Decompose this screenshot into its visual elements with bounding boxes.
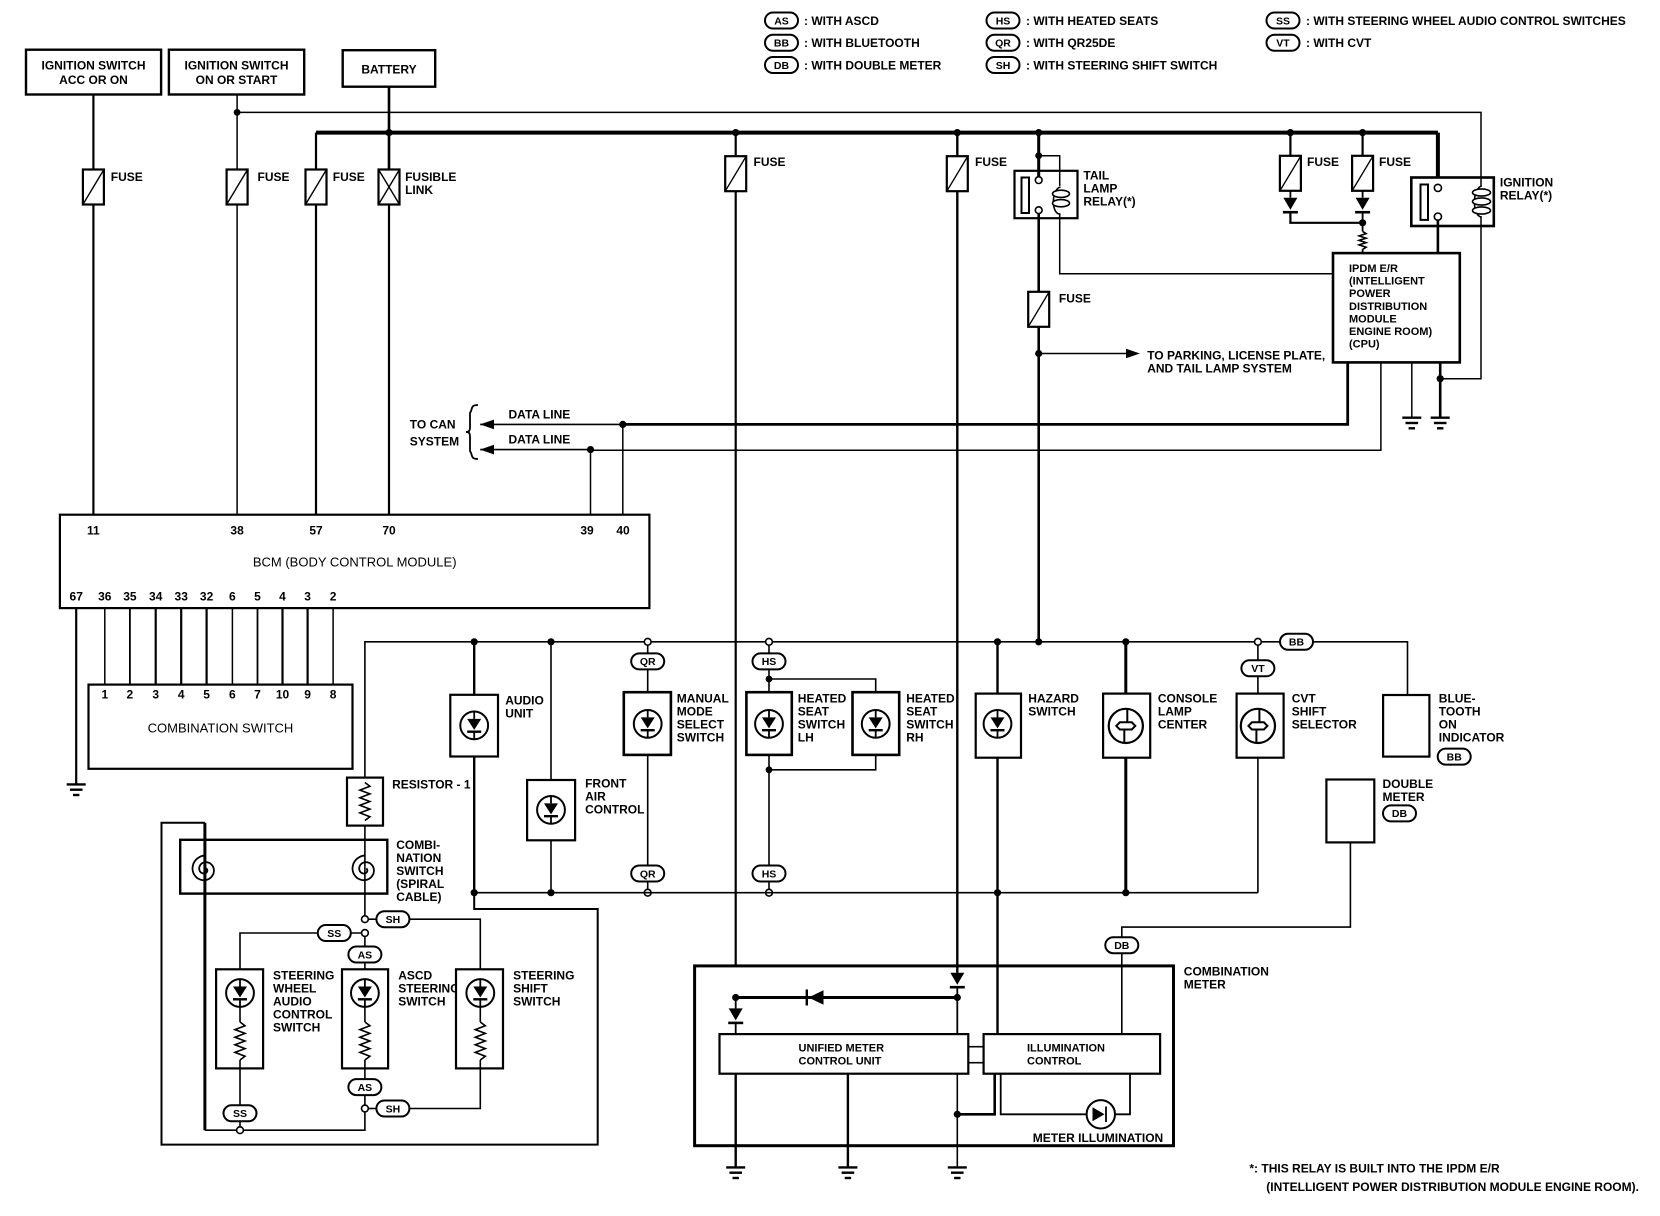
svg-text:DATA LINE: DATA LINE [509, 408, 571, 422]
svg-text:SWITCH: SWITCH [798, 718, 845, 732]
connector SH bottom [376, 1101, 409, 1117]
svg-text:METER: METER [1184, 978, 1226, 992]
heated seat switch LH [746, 692, 846, 755]
wire: unified ground 2 [847, 1074, 849, 1168]
wire: unified ground 1 [735, 1074, 737, 1168]
node: tail feed joins rail [1035, 638, 1042, 645]
wire: fuse diode A drop [1289, 133, 1291, 156]
connector QR top [631, 653, 664, 669]
svg-text:COMBINATION: COMBINATION [1184, 965, 1269, 979]
svg-text:BB: BB [774, 38, 790, 50]
svg-text:SWITCH: SWITCH [513, 994, 560, 1008]
wire: QR top stub [647, 645, 649, 654]
svg-text:LAMP: LAMP [1083, 182, 1117, 196]
backup diode line [736, 996, 958, 999]
wire: IPDM ground 2 [1439, 362, 1442, 417]
wire: meter illumination loop left [1001, 1074, 1087, 1115]
data line 2 [480, 449, 590, 451]
node: diode join [1359, 219, 1366, 226]
node: IGN branch [234, 109, 241, 116]
svg-text:FUSE: FUSE [1307, 155, 1339, 169]
svg-text:RELAY(*): RELAY(*) [1500, 189, 1552, 203]
node: data line 1 tap [619, 421, 626, 428]
svg-text:TAIL: TAIL [1083, 169, 1109, 183]
svg-text:VT: VT [1251, 663, 1265, 675]
combination switch (spiral cable) [180, 838, 444, 904]
svg-text:DATA LINE: DATA LINE [509, 433, 571, 447]
unified meter control unit [720, 1034, 969, 1074]
svg-text:9: 9 [304, 688, 311, 702]
node: RH branch bottom [766, 766, 773, 773]
svg-text:QR: QR [640, 868, 656, 880]
svg-text:TOOTH: TOOTH [1439, 704, 1481, 718]
svg-text:MODULE: MODULE [1349, 313, 1397, 325]
legend connector AS [765, 13, 798, 29]
svg-text:IGNITION SWITCH: IGNITION SWITCH [185, 59, 289, 73]
svg-text:FUSE: FUSE [111, 170, 143, 184]
svg-text:CONTROL: CONTROL [585, 802, 644, 816]
svg-text:34: 34 [149, 590, 163, 604]
svg-text:FUSE: FUSE [1059, 292, 1091, 306]
wire: HS bottom stub [768, 881, 770, 889]
coil squiggle into IPDM [1359, 231, 1366, 249]
svg-text:CONSOLE: CONSOLE [1158, 692, 1217, 706]
svg-text:ENGINE ROOM): ENGINE ROOM) [1349, 326, 1432, 338]
svg-text:CABLE): CABLE) [396, 890, 441, 904]
svg-text:: WITH BLUETOOTH: : WITH BLUETOOTH [804, 36, 920, 50]
svg-text:QR: QR [640, 656, 656, 668]
wire: relay output to IPDM [1437, 220, 1440, 253]
svg-text:DISTRIBUTION: DISTRIBUTION [1349, 301, 1427, 313]
svg-text:1: 1 [101, 688, 108, 702]
connector VT [1241, 660, 1274, 676]
wire: spiral right through [364, 840, 366, 867]
svg-text:SWITCH: SWITCH [1028, 705, 1075, 719]
wire: relay coil return [1440, 226, 1481, 379]
svg-text:SEAT: SEAT [798, 705, 830, 719]
svg-text:BB: BB [1289, 637, 1305, 649]
svg-text:RESISTOR - 1: RESISTOR - 1 [392, 778, 471, 792]
heated seat switch RH [853, 692, 955, 755]
wire: ignition ON feed [236, 95, 238, 170]
svg-text:UNIFIED METER: UNIFIED METER [799, 1043, 885, 1055]
node: SS top (open) [362, 930, 369, 937]
ASCD steering switch [342, 968, 460, 1068]
legend connector VT [1267, 35, 1300, 51]
svg-text:8: 8 [330, 688, 337, 702]
wire: hazard drop [996, 642, 998, 1034]
svg-text:RELAY(*): RELAY(*) [1083, 195, 1135, 209]
svg-text:36: 36 [98, 590, 112, 604]
svg-text:(CPU): (CPU) [1349, 339, 1380, 351]
connector AS top [348, 947, 381, 963]
svg-text:METER ILLUMINATION: METER ILLUMINATION [1033, 1131, 1163, 1145]
wire: SS oval to node [239, 1121, 241, 1127]
svg-text:HEATED: HEATED [798, 692, 847, 706]
legend connector DB [765, 57, 798, 73]
wire: audio unit drop [473, 642, 475, 893]
svg-text:SHIFT: SHIFT [513, 981, 548, 995]
svg-text:(INTELLIGENT: (INTELLIGENT [1349, 276, 1425, 288]
svg-text:BLUE-: BLUE- [1439, 691, 1476, 705]
svg-text:DOUBLE: DOUBLE [1383, 777, 1434, 791]
svg-text:10: 10 [276, 688, 290, 702]
wire: tail relay output [1037, 214, 1040, 292]
node: console bottom [1122, 889, 1129, 896]
svg-text:CVT: CVT [1292, 692, 1317, 706]
svg-text:ON OR START: ON OR START [196, 73, 278, 87]
IPDM E/R box [1333, 253, 1460, 362]
node: SH/AS join (open) [362, 1105, 369, 1112]
svg-text:DB: DB [774, 60, 790, 72]
steering wheel audio control switch [216, 968, 334, 1068]
BCM box [60, 515, 650, 608]
svg-text:SS: SS [233, 1108, 247, 1120]
meter illumination lamp [1033, 1100, 1163, 1145]
svg-text:SH: SH [386, 914, 401, 926]
fusible link [379, 170, 400, 205]
wire: SS stub [347, 932, 365, 934]
node: rail to fuse (meter batt) [732, 129, 739, 136]
wire: tail feed down to rail [1037, 327, 1040, 642]
wire: manual mode drop [647, 669, 649, 865]
node: rail to fuse (meter ill) [954, 129, 961, 136]
svg-text:SHIFT: SHIFT [1292, 705, 1327, 719]
svg-text:: WITH HEATED SEATS: : WITH HEATED SEATS [1026, 14, 1158, 28]
svg-text:DB: DB [1392, 808, 1408, 820]
connector DB (double meter) [1383, 805, 1416, 821]
wire: ignition ACC feed to BCM pin 11 [92, 95, 94, 170]
node: meter batt junction [732, 994, 739, 1001]
wire: tail relay coil feed [1039, 156, 1060, 186]
CVT shift selector [1237, 692, 1358, 758]
svg-text:2: 2 [330, 590, 337, 604]
node: front air bottom [547, 889, 554, 896]
wire: VT stub [1257, 645, 1259, 661]
svg-text:*: THIS RELAY IS BUILT INTO TH: *: THIS RELAY IS BUILT INTO THE IPDM E/R [1249, 1161, 1500, 1175]
svg-text:FUSE: FUSE [754, 155, 786, 169]
node: console tap [1122, 638, 1129, 645]
svg-text:HS: HS [762, 656, 777, 668]
svg-text:CONTROL UNIT: CONTROL UNIT [799, 1056, 882, 1068]
svg-text:SYSTEM: SYSTEM [410, 435, 459, 449]
svg-text:SWITCH: SWITCH [906, 718, 953, 732]
svg-text:COMBI-: COMBI- [396, 838, 440, 852]
wire: audio switch to SS bottom [239, 1068, 241, 1105]
audio unit [450, 694, 544, 757]
svg-text:MANUAL: MANUAL [677, 692, 729, 706]
svg-text:4: 4 [279, 590, 286, 604]
hazard switch [976, 692, 1080, 758]
diode A [1283, 198, 1298, 213]
connector QR bottom [631, 866, 664, 882]
wire: front air drop [550, 642, 552, 893]
node: hazard tap [994, 638, 1001, 645]
ignition switch ACC OR ON box [26, 50, 161, 95]
legend connector SH [987, 57, 1020, 73]
svg-text:57: 57 [309, 523, 323, 537]
spiral (left) [193, 856, 214, 881]
connector BB (indicator) [1438, 749, 1471, 765]
wire: unified ground 3 [956, 1074, 958, 1168]
wire: pin 40 [622, 424, 624, 514]
ground (IPDM 2) [1431, 418, 1450, 429]
svg-text:(INTELLIGENT POWER DISTRIBUTIO: (INTELLIGENT POWER DISTRIBUTION MODULE E… [1266, 1180, 1639, 1194]
svg-text:5: 5 [203, 688, 210, 702]
data line 1 [480, 423, 623, 425]
svg-text:35: 35 [123, 590, 137, 604]
svg-text:SS: SS [327, 928, 341, 940]
svg-text:POWER: POWER [1349, 288, 1391, 300]
svg-text:BB: BB [1447, 751, 1463, 763]
svg-text:FUSE: FUSE [333, 170, 365, 184]
double meter [1326, 777, 1433, 842]
svg-text:VT: VT [1276, 38, 1290, 50]
node: RH branch top [766, 676, 773, 683]
svg-text:40: 40 [616, 523, 630, 537]
front air control [527, 776, 644, 840]
wire: heated seat LH drop [768, 669, 770, 865]
wire: AS to ASCD switch [364, 933, 366, 969]
node: audio tap [471, 638, 478, 645]
svg-text:FUSE: FUSE [258, 170, 290, 184]
diode B [1355, 198, 1370, 213]
svg-text:AND TAIL LAMP SYSTEM: AND TAIL LAMP SYSTEM [1147, 362, 1292, 376]
node: branch to relay coil [1035, 152, 1042, 159]
node: coil return join [1437, 375, 1444, 382]
svg-text:SH: SH [386, 1103, 401, 1115]
legend connector HS [987, 13, 1020, 29]
wires: BCM to combination switch pins [104, 608, 106, 685]
svg-text:NATION: NATION [396, 851, 441, 865]
svg-text:BCM (BODY CONTROL MODULE): BCM (BODY CONTROL MODULE) [253, 555, 457, 570]
svg-text:: WITH QR25DE: : WITH QR25DE [1026, 36, 1115, 50]
wire: resistor to spiral cable [364, 826, 366, 867]
node: audio loop corner [471, 889, 478, 896]
legend connector QR [987, 35, 1020, 51]
connector SS bottom [224, 1105, 257, 1121]
svg-text:STEERING: STEERING [398, 981, 459, 995]
wire: fuse diode B drop [1361, 133, 1363, 156]
svg-text:LAMP: LAMP [1158, 705, 1192, 719]
connector HS top [753, 653, 786, 669]
wire: IPDM to data line 1 [623, 362, 1348, 424]
svg-text:32: 32 [200, 590, 214, 604]
wire: SS top to audio control switch [240, 933, 318, 969]
connector DB (meter) [1105, 937, 1138, 953]
svg-text:70: 70 [382, 523, 396, 537]
svg-text:QR: QR [995, 38, 1011, 50]
node: battery on rail [385, 129, 392, 136]
node: front air tap [547, 638, 554, 645]
svg-text:38: 38 [230, 523, 244, 537]
svg-text:TO CAN: TO CAN [410, 418, 456, 432]
wire: console lamp drop [1124, 642, 1127, 893]
svg-text:SWITCH: SWITCH [677, 731, 724, 745]
svg-text:AS: AS [358, 949, 373, 961]
svg-text:CONTROL: CONTROL [1027, 1056, 1082, 1068]
fuse (tail) [1028, 292, 1049, 327]
connector BB on rail [1280, 634, 1313, 650]
ground (IPDM 1) [1402, 418, 1421, 429]
wire: SH bottom stub [365, 1108, 380, 1110]
wire: DB into illumination control [1121, 953, 1123, 1034]
wire: pin 39 [590, 450, 592, 515]
wire: thin IGN rail to ignition relay coil [237, 112, 1481, 184]
bluetooth on indicator [1383, 691, 1505, 756]
svg-text:6: 6 [229, 688, 236, 702]
svg-text:ILLUMINATION: ILLUMINATION [1027, 1043, 1105, 1055]
svg-text:COMBINATION SWITCH: COMBINATION SWITCH [148, 721, 294, 736]
svg-text:AS: AS [774, 15, 789, 27]
wire: SH top to shift switch [409, 919, 480, 969]
fuse (diode A) [1280, 156, 1301, 191]
illumination control [984, 1034, 1161, 1074]
svg-text:SELECT: SELECT [677, 718, 725, 732]
ignition relay [1411, 176, 1553, 227]
wire: to tail lamp relay contact [1037, 133, 1040, 180]
node: SH top (open) [362, 916, 369, 923]
diode (backup, pointing left) [806, 990, 808, 1006]
svg-text:CENTER: CENTER [1158, 718, 1208, 732]
wire: QR bottom stub [647, 881, 649, 889]
svg-text:39: 39 [580, 523, 594, 537]
svg-text:7: 7 [254, 688, 261, 702]
svg-text:HEATED: HEATED [906, 692, 955, 706]
fuse (IGN) [227, 170, 248, 205]
node: QR connector (open) [644, 638, 651, 645]
ground (meter 1) [726, 1167, 745, 1178]
combination meter box [695, 966, 1174, 1146]
svg-text:: WITH STEERING SHIFT SWITCH: : WITH STEERING SHIFT SWITCH [1026, 58, 1217, 72]
connector AS bottom [348, 1079, 381, 1095]
wire: loop to steering switches [162, 823, 598, 1145]
wire: SH stub [365, 918, 380, 920]
fuse (diode B) [1352, 156, 1373, 191]
wire: ASCD switch to AS bottom [364, 1068, 366, 1079]
svg-text:FUSE: FUSE [975, 155, 1007, 169]
svg-text:WHEEL: WHEEL [273, 981, 316, 995]
svg-text:2: 2 [127, 688, 134, 702]
connector HS bottom [753, 866, 786, 882]
svg-text:ON: ON [1439, 717, 1457, 731]
wire: tail relay coil return [1060, 214, 1333, 274]
wire: double meter to DB [1122, 842, 1351, 937]
svg-text:CONTROL: CONTROL [273, 1007, 332, 1021]
svg-text:SWITCH: SWITCH [273, 1020, 320, 1034]
node: data line 2 tap [587, 446, 594, 453]
svg-text:METER: METER [1383, 790, 1425, 804]
legend connector BB [765, 35, 798, 51]
CAN brace [466, 405, 478, 459]
svg-text:5: 5 [254, 590, 261, 604]
svg-text:FUSIBLE: FUSIBLE [405, 170, 456, 184]
ground (meter 2) [838, 1167, 857, 1178]
resistor-1 [347, 778, 471, 826]
svg-text:STEERING: STEERING [513, 968, 574, 982]
svg-text:MODE: MODE [677, 705, 713, 719]
wire: thick rail drop to ignition relay [1436, 133, 1440, 188]
fuse (meter ill) [947, 156, 968, 191]
connector SH top [376, 911, 409, 927]
connector SS top [318, 925, 351, 941]
node: HS bottom (open) [766, 889, 773, 896]
node: hazard cross [994, 889, 1001, 896]
combination switch box [89, 685, 353, 769]
svg-text:BATTERY: BATTERY [361, 63, 416, 77]
svg-text:LH: LH [798, 731, 814, 745]
wire: IPDM to data line 2 [591, 362, 1381, 450]
node: meter ill junction [954, 994, 961, 1001]
wire: fuse 57 drop [315, 133, 317, 170]
legend connector SS [1267, 13, 1300, 29]
illumination rail (lower) [474, 892, 1258, 894]
svg-text:RH: RH [906, 731, 923, 745]
wire: arrow to parking system [1039, 353, 1128, 355]
svg-text:3: 3 [152, 688, 159, 702]
wire: pin 67 to ground [75, 608, 77, 784]
node: SS bottom (open) [237, 1127, 244, 1134]
svg-text:11: 11 [87, 523, 100, 537]
fuse (ACC) [83, 170, 104, 205]
svg-text:67: 67 [70, 590, 84, 604]
svg-text:: WITH DOUBLE METER: : WITH DOUBLE METER [804, 58, 942, 72]
fuse (meter batt) [725, 156, 746, 191]
wire: CVT drop [1257, 676, 1259, 892]
svg-text:HAZARD: HAZARD [1028, 692, 1079, 706]
manual mode select switch [624, 692, 729, 755]
wire: RH branch [769, 679, 876, 692]
ignition switch ON OR START box [169, 50, 304, 95]
node: illumination return join [954, 1111, 961, 1118]
svg-text:AIR: AIR [585, 789, 606, 803]
fuse (BAT to 57) [306, 170, 327, 205]
node: QR bottom (open) [644, 889, 651, 896]
svg-text:TO PARKING, LICENSE PLATE,: TO PARKING, LICENSE PLATE, [1147, 349, 1325, 363]
svg-text:4: 4 [178, 688, 185, 702]
wire: meter battery feed [735, 133, 737, 157]
svg-text:UNIT: UNIT [505, 707, 534, 721]
wire: battery thick rail [316, 131, 1438, 135]
svg-text:IPDM E/R: IPDM E/R [1349, 263, 1398, 275]
node: rail to tail lamp relay [1035, 129, 1042, 136]
wire: HS top stub [768, 645, 770, 654]
svg-text:: WITH ASCD: : WITH ASCD [804, 14, 879, 28]
diode (meter ill feed) [950, 973, 965, 988]
battery box [343, 50, 436, 86]
wire: spiral left thick through [203, 823, 206, 1130]
diode (meter batt) [728, 1008, 743, 1023]
svg-text:ACC OR ON: ACC OR ON [59, 73, 128, 87]
svg-text:: WITH CVT: : WITH CVT [1306, 36, 1372, 50]
svg-text:SH: SH [996, 60, 1011, 72]
svg-text:AUDIO: AUDIO [505, 694, 544, 708]
svg-text:IGNITION: IGNITION [1500, 176, 1553, 190]
svg-text:FUSE: FUSE [1379, 155, 1411, 169]
svg-text:LINK: LINK [405, 183, 433, 197]
node: parking branch [1035, 350, 1042, 357]
svg-text:HS: HS [996, 15, 1011, 27]
svg-text:FRONT: FRONT [585, 776, 627, 790]
node: HS connector (open) [766, 638, 773, 645]
svg-text:6: 6 [229, 590, 236, 604]
svg-text:DB: DB [1114, 940, 1130, 952]
svg-text:AUDIO: AUDIO [273, 994, 312, 1008]
svg-text:SWITCH: SWITCH [398, 994, 445, 1008]
wire: IPDM ground 1 [1411, 362, 1413, 417]
illumination rail (upper) [365, 642, 1408, 778]
svg-text:(SPIRAL: (SPIRAL [396, 877, 444, 891]
